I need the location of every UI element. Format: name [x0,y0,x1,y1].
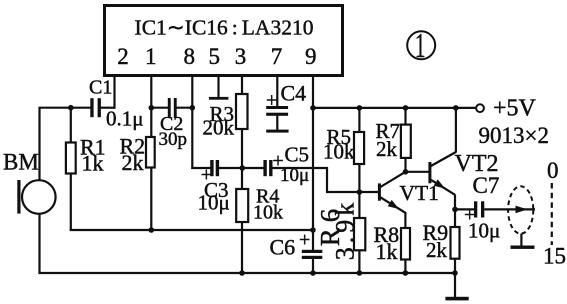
svg-text:2k: 2k [122,150,144,175]
wire C1 right segment [100,107,115,109]
svg-text:8: 8 [183,44,195,69]
wire R7 bottom [404,158,406,173]
svg-text:15: 15 [543,244,566,269]
svg-text:3.9k: 3.9k [331,199,360,261]
node junction C2 right pin 8 [190,105,196,111]
node junction R7 supply [403,105,409,111]
connector ground symbol [511,246,535,249]
capacitor C5 [263,160,272,176]
wire jog down [326,167,328,193]
node junction R1 top [68,105,74,111]
node junction C6 ground rail [310,270,316,276]
svg-text:C6: C6 [270,235,296,260]
wire VT2 emitter vertical [454,194,456,210]
wire R9 bottom [454,258,456,274]
resistor R1 [66,143,76,174]
wire pin 8 to C3 [191,167,210,169]
capacitor C1 [90,98,101,117]
svg-text:10k: 10k [253,202,283,224]
wire BM bottom vertical [38,214,40,275]
wire VT1 collector to VT2 base [406,171,429,173]
wire VT1 base [326,191,378,193]
node junction pin 3 column [240,165,246,171]
wire pin 5 stub [217,77,219,98]
node junction VT1 collector [403,169,409,175]
svg-text:1: 1 [145,44,157,69]
svg-text:C1: C1 [89,77,112,99]
wire R9 top [454,209,456,227]
wire C2 right segment [176,107,192,109]
wire C5 right segment [272,167,328,169]
node junction VT2 emitter [452,207,458,213]
svg-text:0.1μ: 0.1μ [106,107,144,131]
wire C6 bottom [312,259,314,275]
transistor VT2 emitter arrow [434,179,445,188]
wire VT1 emitter vertical [404,212,406,229]
wire R1 top [70,108,72,143]
transistor VT2 collector lead [431,152,456,166]
capacitor C7 [474,201,484,217]
svg-text:IC1∼IC16:LA3210: IC1∼IC16:LA3210 [135,16,314,40]
wire C4 bottom [276,115,278,130]
transistor VT1 collector lead [380,172,405,187]
wire C7 left segment [455,208,475,210]
svg-text:0: 0 [547,158,559,183]
svg-text:5: 5 [209,44,221,69]
microphone BM [22,180,56,214]
svg-text:2k: 2k [376,137,398,161]
svg-text:30p: 30p [159,129,188,150]
capacitor C4 [266,106,288,116]
node junction VT2 collector supply [453,105,459,111]
node junction R5 supply [357,105,363,111]
resistor R5 [354,132,364,164]
wire pin 8 vertical [191,77,193,169]
wire R7 top [404,108,406,125]
transistor VT1 emitter arrow [388,200,399,209]
node junction R4 ground rail [239,270,245,276]
resistor R4 [236,189,248,222]
resistor R2 [146,137,155,168]
resistor R8 [401,228,410,260]
svg-text:9: 9 [305,44,317,69]
wire pin 3 vertical [241,77,243,95]
node junction R9 ground rail [452,270,458,276]
node junction C2 left [149,105,155,111]
+5V terminal [476,104,484,112]
resistor R7 [401,125,411,158]
transistor VT1 emitter lead [380,197,405,213]
wire pin 1 vertical [150,77,152,138]
wire node to R4 [241,167,243,190]
circled figure number 1 [407,31,435,59]
wire pin 2 vertical [113,77,115,109]
resistor R6 [354,218,365,250]
wire R5 top [358,108,360,133]
wire R4 bottom to ground rail [241,222,243,275]
transistor VT1 base bar [378,183,381,200]
wire VT2 collector vertical [455,108,457,153]
svg-text:3: 3 [235,44,247,69]
svg-text:10k: 10k [323,140,355,164]
svg-text:C4: C4 [281,81,307,106]
svg-text:1k: 1k [376,239,398,264]
capacitor C6 [302,250,323,259]
C4 ground bar [266,130,288,133]
wire R2 bottom [150,167,152,230]
wire R6 bottom [358,250,360,274]
wire R1 bottom [70,173,72,231]
wire ground rail B [39,272,456,274]
ground symbol [445,297,468,301]
svg-text:+5V: +5V [493,96,537,122]
wire C3 to node [219,167,243,169]
node junction R8 ground rail [403,270,409,276]
node junction pin 9 rail A [310,227,316,233]
svg-text:+: + [299,229,310,251]
dashed wire connector range [551,183,553,245]
svg-text:+: + [266,90,277,112]
resistor R9 [451,227,460,259]
wire R6 top [358,192,360,219]
microphone BM electrode bar [17,180,20,214]
wire node to C5 [241,167,263,169]
wire BM top vertical [38,107,40,181]
capacitor C2 [168,98,177,118]
capacitor C3 [210,160,219,176]
node junction R6 ground rail [357,270,363,276]
wire C1 left segment [40,107,92,109]
svg-text:2: 2 [117,44,129,69]
transistor VT2 base bar [428,162,431,183]
node junction pin 9 supply rail [310,105,316,111]
wire bias rail A [70,229,313,231]
wire C7 output segment [484,208,535,210]
output arrow [516,206,528,214]
wire ground stub [454,273,456,297]
wire +5V supply rail [313,107,475,109]
svg-text:10μ: 10μ [198,191,230,215]
IC block IC1~IC16 LA3210 [105,6,343,76]
output connector dashed ellipse [508,186,533,233]
svg-text:1k: 1k [82,151,104,176]
pin 5 terminal bar [209,97,229,100]
svg-text:C5: C5 [285,143,310,167]
wire R8 bottom [404,259,406,274]
wire connector ground stub [520,234,522,246]
svg-text:7: 7 [271,44,283,69]
svg-text:9013×2: 9013×2 [479,123,549,148]
node junction R2 rail A [149,227,155,233]
wire R3 bottom [241,129,243,170]
node junction VT1 base [357,189,363,195]
svg-text:VT1: VT1 [400,181,439,205]
svg-text:C7: C7 [473,173,500,198]
svg-text:10μ: 10μ [468,219,500,243]
svg-text:2k: 2k [426,238,448,262]
svg-text:20k: 20k [203,116,235,140]
svg-text:1: 1 [415,27,426,65]
wire C2 left segment [151,107,168,109]
svg-text:BM: BM [3,150,39,175]
wire pin 9 vertical [312,77,314,251]
transistor VT2 emitter lead [431,180,455,195]
resistor R3 [236,94,248,129]
wire pin 7 stub [276,77,278,107]
wire R5 bottom [358,164,360,194]
